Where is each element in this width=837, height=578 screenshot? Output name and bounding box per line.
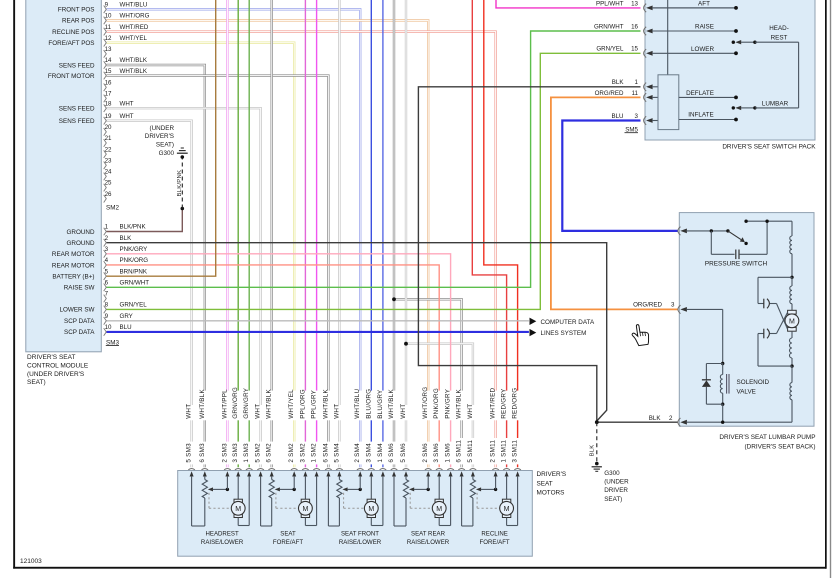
svg-text:GRN/YEL: GRN/YEL <box>596 46 624 53</box>
svg-text:WHT/BLU: WHT/BLU <box>354 389 361 419</box>
svg-text:BLK/PNK: BLK/PNK <box>120 224 147 231</box>
svg-text:SEAT): SEAT) <box>156 141 174 148</box>
svg-text:13: 13 <box>105 46 112 53</box>
svg-text:WHT/BLU: WHT/BLU <box>120 2 148 9</box>
svg-text:PPL/WHT: PPL/WHT <box>596 0 624 7</box>
connector SM3 pin 2 <box>104 239 107 247</box>
wire GRN/YEL net: module pin 8 to switch pack pin 15 <box>107 53 641 309</box>
wire Q2 to motor (cross link) <box>777 312 788 333</box>
wire WHT/BLK net: module pin 14 to motor 6 SM3 <box>107 65 205 467</box>
wire WHT net: off-page to motors 5 SM6 and 5 SM11 <box>405 0 407 467</box>
svg-text:3 SM3: 3 SM3 <box>232 443 239 463</box>
svg-text:20: 20 <box>105 124 112 131</box>
wire sensor leads group 1 <box>191 476 193 526</box>
svg-text:DRIVER'S SEAT SWITCH PACK: DRIVER'S SEAT SWITCH PACK <box>722 144 816 151</box>
label pin 5 SM2 <box>253 442 263 465</box>
label wire color WHT/BLU at 2 SM4 <box>353 391 363 421</box>
motor M group 2 <box>304 476 306 499</box>
svg-text:SEAT): SEAT) <box>604 496 622 503</box>
potentiometer position sensor group 3 <box>337 480 342 499</box>
label pin 5 SM6 <box>398 442 408 465</box>
mechanical link group 1 <box>208 493 210 508</box>
svg-text:9: 9 <box>105 2 109 9</box>
connector SM2 pin 21 <box>104 139 107 147</box>
ground G300 under driver seat (module side) <box>181 155 185 159</box>
svg-text:WHT/BLK: WHT/BLK <box>456 389 463 419</box>
junction on WHT sensor bus <box>404 342 408 346</box>
svg-text:WHT: WHT <box>400 404 407 419</box>
svg-text:WHT: WHT <box>467 404 474 419</box>
junction pump lower node <box>790 364 793 367</box>
label wire color WHT at 5 SM11 <box>465 405 475 420</box>
svg-text:BLU/GRY: BLU/GRY <box>377 389 384 419</box>
label pin 5 SM4 <box>332 442 342 465</box>
wire BLK dashed lead to G300 (bottom) <box>596 422 598 462</box>
junction BLK ground splice <box>595 420 599 424</box>
connector SM3 pin 6 <box>104 284 107 292</box>
svg-text:4: 4 <box>105 257 109 264</box>
svg-text:5 SM2: 5 SM2 <box>255 443 262 463</box>
svg-text:DRIVER'S: DRIVER'S <box>537 471 567 478</box>
wire BLK net: switch pack pin 1 ground path <box>418 87 640 421</box>
mouse cursor hand icon <box>631 323 650 346</box>
wire switch pack RAISE contact line <box>734 29 738 33</box>
svg-text:SCP DATA: SCP DATA <box>64 329 95 336</box>
svg-text:SM5: SM5 <box>625 126 638 133</box>
motor group 2: SEAT FORE/AFT <box>257 469 264 470</box>
connector SM2 pin 26 <box>104 195 107 203</box>
label wire color PNK/ORG at 3 SM6 <box>432 391 442 421</box>
svg-text:16: 16 <box>105 79 112 86</box>
wire BLU net: switch pack pin 3 to lumbar pump pin 1 <box>562 121 678 231</box>
svg-text:11: 11 <box>632 90 639 97</box>
ground G300 under driver seat (bottom) <box>595 462 599 466</box>
label wire color RED/GRY at 1 SM11 <box>499 391 509 421</box>
svg-text:5: 5 <box>105 268 109 275</box>
svg-text:M: M <box>504 506 510 513</box>
connector SM3 pin 5 <box>104 272 107 280</box>
svg-text:13: 13 <box>631 0 638 7</box>
svg-text:1: 1 <box>105 224 109 231</box>
wire BLK/PNK net: module pin 1 ground to G300 <box>107 209 183 232</box>
connector lumbar pump pin 1 (BLU) <box>678 227 681 235</box>
connector switch pack pin 13 (PPL/WHT) <box>644 4 647 12</box>
mechanical link group 2 <box>275 493 277 508</box>
svg-text:26: 26 <box>105 191 112 198</box>
switch body (lumbar switch block) <box>658 75 679 130</box>
label pin 3 SM2 <box>298 442 308 465</box>
connector switch pack pin 1 (BLK) <box>644 83 647 91</box>
potentiometer position sensor group 5 <box>470 480 475 499</box>
svg-text:1 SM3: 1 SM3 <box>243 443 250 463</box>
wire WHT net: module pin 19 to motor 5 SM3 <box>107 121 192 468</box>
svg-text:WHT: WHT <box>120 113 134 120</box>
label pin 6 SM3 <box>197 442 207 465</box>
pressure switch blade <box>728 231 741 240</box>
node computer data lines system arrows <box>530 318 537 325</box>
svg-text:FORE/AFT: FORE/AFT <box>273 539 303 546</box>
connector lumbar pump pin 2 (BLK) <box>678 418 681 426</box>
potentiometer position sensor group 2 <box>269 480 274 499</box>
label pin 1 SM4 <box>375 442 385 465</box>
label pin 6 SM11 <box>454 438 464 464</box>
wire BRN/PNK net: module pin 5 battery feed to off-page <box>107 0 216 276</box>
label pin 6 SM4 <box>321 442 331 465</box>
svg-text:G300: G300 <box>604 470 620 477</box>
svg-text:15: 15 <box>631 46 638 53</box>
svg-text:WHT: WHT <box>333 404 340 419</box>
pump motor supply branch (right) <box>791 221 793 236</box>
svg-text:8: 8 <box>105 302 109 309</box>
wire RED/GRY net: off-page to motor 1 SM11 <box>472 0 506 467</box>
solenoid valve branch <box>722 309 724 363</box>
wire GRN/WHT net: module pin 6 to switch pack pin 16 <box>107 31 641 287</box>
svg-text:5 SM3: 5 SM3 <box>186 443 193 463</box>
label wire color WHT/BLK at 6 SM4 <box>321 391 331 421</box>
mechanical link group 3 <box>343 493 345 508</box>
connector SM2 pin 13 <box>104 50 107 58</box>
svg-text:DRIVER'S SEAT: DRIVER'S SEAT <box>27 354 75 361</box>
label pin 3 SM11 <box>510 438 520 464</box>
label pin 6 SM2 <box>264 442 274 465</box>
svg-text:WHT/BLK: WHT/BLK <box>266 389 273 419</box>
label wire color PNK/GRY at 1 SM6 <box>443 391 453 421</box>
svg-text:AFT: AFT <box>698 1 710 8</box>
svg-text:REST: REST <box>771 34 788 41</box>
wire sensor leads group 5 <box>461 476 463 526</box>
svg-text:SCP DATA: SCP DATA <box>64 318 95 325</box>
svg-text:GRN/GRY: GRN/GRY <box>243 387 250 419</box>
wire WHT/BLK net: off-page to motor 6 SM2 <box>271 0 273 467</box>
label wire color WHT/RED at 2 SM11 <box>488 391 498 421</box>
connector switch pack pin 15 (GRN/YEL) <box>644 49 647 57</box>
transistor Q2 (pump lower driver) <box>758 365 792 367</box>
motor group 3: SEAT FRONT RAISE/LOWER <box>325 469 332 470</box>
svg-text:3 SM2: 3 SM2 <box>299 443 306 463</box>
svg-text:REAR POS: REAR POS <box>62 18 95 25</box>
potentiometer position sensor group 4 <box>403 480 408 499</box>
label wire color WHT/BLK at 6 SM11 <box>454 391 464 421</box>
svg-text:GRN/YEL: GRN/YEL <box>120 302 148 309</box>
svg-text:RED/GRY: RED/GRY <box>501 388 508 419</box>
svg-text:GRN/ORG: GRN/ORG <box>232 387 239 419</box>
svg-text:2 SM2: 2 SM2 <box>288 443 295 463</box>
connector SM2 pin 19 <box>104 117 107 125</box>
connector SM2 pin 18 <box>104 104 107 112</box>
svg-text:FRONT POS: FRONT POS <box>58 7 95 14</box>
svg-text:RAISE/LOWER: RAISE/LOWER <box>407 539 450 546</box>
svg-text:WHT/BLK: WHT/BLK <box>388 389 395 419</box>
svg-text:2 SM11: 2 SM11 <box>490 440 497 463</box>
label wire color PPL/ORG at 3 SM2 <box>298 391 308 421</box>
motor M group 4 <box>438 476 440 499</box>
motor group 4: SEAT REAR RAISE/LOWER <box>391 469 398 470</box>
svg-text:(UNDER DRIVER'S: (UNDER DRIVER'S <box>27 371 85 378</box>
wire sensor leads group 3 <box>327 476 329 526</box>
pressure switch sense capsule <box>710 231 712 254</box>
svg-text:PNK/ORG: PNK/ORG <box>120 257 149 264</box>
label pin 2 SM3 <box>220 442 230 465</box>
svg-text:VALVE: VALVE <box>737 388 756 395</box>
svg-text:M: M <box>436 506 442 513</box>
label pin 3 SM4 <box>364 442 374 465</box>
wire BLU/GRY net: off-page to motor 1 SM4 <box>382 0 384 467</box>
svg-text:FORE/AFT: FORE/AFT <box>480 539 510 546</box>
wire BLK segment to lumbar pump pin 2 <box>597 421 678 423</box>
wire GRN/GRY net: off-page to motor 1 SM3 <box>248 0 250 467</box>
svg-text:PPL/GRY: PPL/GRY <box>311 389 318 418</box>
svg-text:SENS FEED: SENS FEED <box>59 106 95 113</box>
wire BLU/ORG net: off-page to motor 3 SM4 <box>370 0 372 467</box>
label pin 5 SM3 <box>184 442 194 465</box>
wire Q1 to motor (cross link) <box>777 304 788 330</box>
wire WHT branch to 5 SM11 <box>406 344 473 468</box>
potentiometer wiper group 2 <box>275 487 280 491</box>
svg-text:GRN/WHT: GRN/WHT <box>594 23 624 30</box>
svg-text:PRESSURE SWITCH: PRESSURE SWITCH <box>705 261 768 268</box>
seat motors box <box>178 471 533 557</box>
wire PPL/GRY net: off-page to motor 1 SM2 <box>316 0 318 467</box>
diode D1 (solenoid clamp) <box>706 363 722 365</box>
svg-text:1 SM4: 1 SM4 <box>377 443 384 463</box>
svg-text:GRY: GRY <box>120 313 133 320</box>
connector SM3 pin 1 <box>104 228 107 236</box>
motor group 5: RECLINE FORE/AFT <box>458 469 465 470</box>
wire BLK net: module pin 2 ground to lumbar pump pin 2 and G300 <box>107 243 607 421</box>
frame: left black border <box>13 0 15 569</box>
pressure switch top link <box>746 220 792 222</box>
connector switch pack pin 11 (ORG/RED) <box>644 93 647 101</box>
label pin 2 SM4 <box>353 442 363 465</box>
solenoid valve coil <box>720 375 722 394</box>
svg-text:BLK: BLK <box>120 235 133 242</box>
svg-text:LOWER SW: LOWER SW <box>60 307 95 314</box>
potentiometer wiper group 3 <box>342 487 347 491</box>
svg-text:WHT: WHT <box>255 404 262 419</box>
svg-text:GROUND: GROUND <box>67 240 95 247</box>
svg-text:9: 9 <box>105 313 109 320</box>
svg-text:5 SM6: 5 SM6 <box>400 443 407 463</box>
label wire color BLU/GRY at 1 SM4 <box>375 391 385 421</box>
svg-text:15: 15 <box>105 68 112 75</box>
wire WHT/BLK branch to 6 SM11 <box>394 299 462 467</box>
svg-text:RECLINE POS: RECLINE POS <box>52 29 94 36</box>
svg-text:3 SM11: 3 SM11 <box>512 440 519 463</box>
label wire color WHT at 5 SM2 <box>253 405 263 420</box>
svg-text:1: 1 <box>635 79 639 86</box>
potentiometer wiper group 1 <box>208 487 213 491</box>
wire BLK/PNK dashed lead to G300 <box>181 157 183 208</box>
label pin 3 SM3 <box>231 442 241 465</box>
svg-text:BLK/PNK: BLK/PNK <box>177 170 183 197</box>
svg-text:BLU/ORG: BLU/ORG <box>365 389 372 419</box>
wire WHT net: off-page to motor 5 SM4 <box>338 0 340 467</box>
motor M group 5 <box>506 476 508 499</box>
svg-text:WHT/RED: WHT/RED <box>490 387 497 418</box>
connector switch pack pin 16 (GRN/WHT) <box>644 27 647 35</box>
svg-text:22: 22 <box>105 146 112 153</box>
svg-text:REAR MOTOR: REAR MOTOR <box>52 251 95 258</box>
wire PPL/WHT net: off-page to switch pack pin 13 <box>496 0 641 8</box>
svg-text:M: M <box>302 506 308 513</box>
svg-text:SEAT: SEAT <box>280 530 296 537</box>
label wire color WHT at 5 SM3 <box>184 405 194 420</box>
svg-text:1 SM6: 1 SM6 <box>445 443 452 463</box>
switch headrest rocker arm <box>732 41 735 44</box>
svg-text:RAISE/LOWER: RAISE/LOWER <box>201 539 244 546</box>
svg-text:ORG/RED: ORG/RED <box>633 302 662 309</box>
pressure switch contact nodes <box>711 230 728 232</box>
label wire color WHT/YEL at 2 SM2 <box>287 391 297 421</box>
frame: outer gray edge line <box>830 0 831 578</box>
svg-text:WHT/BLK: WHT/BLK <box>199 389 206 419</box>
svg-text:ORG/RED: ORG/RED <box>595 90 624 97</box>
svg-text:WHT/ORG: WHT/ORG <box>120 13 150 20</box>
svg-text:10: 10 <box>105 324 112 331</box>
connector SM2 pin 9 <box>104 6 107 14</box>
wire ORG/RED net: switch pack pin 11 to lumbar pump pin 3 <box>551 97 678 309</box>
svg-text:2 SM6: 2 SM6 <box>422 443 429 463</box>
svg-text:12: 12 <box>105 35 112 42</box>
svg-text:6 SM6: 6 SM6 <box>388 443 395 463</box>
connector SM3 pin 3 <box>104 250 107 258</box>
svg-text:WHT/ORG: WHT/ORG <box>422 387 429 419</box>
ECU driver seat control module box <box>26 0 102 352</box>
potentiometer position sensor group 1 <box>202 480 207 499</box>
svg-text:WHT/YEL: WHT/YEL <box>288 389 295 419</box>
svg-text:BLK: BLK <box>590 445 596 457</box>
svg-text:21: 21 <box>105 135 112 142</box>
mechanical link group 4 <box>409 493 411 508</box>
mechanical link group 5 <box>476 493 478 508</box>
svg-text:RAISE: RAISE <box>695 24 714 31</box>
label wire color WHT/PPL at 2 SM3 <box>220 391 230 421</box>
label wire color GRN/GRY at 1 SM3 <box>242 391 252 421</box>
connector SM2 pin 22 <box>104 150 107 158</box>
svg-text:18: 18 <box>105 100 112 107</box>
motor M group 3 <box>370 476 372 499</box>
svg-text:5 SM11: 5 SM11 <box>467 440 474 463</box>
label wire color WHT/ORG at 2 SM6 <box>421 391 431 421</box>
svg-text:INFLATE: INFLATE <box>688 112 713 119</box>
svg-text:SENS FEED: SENS FEED <box>59 118 95 125</box>
svg-text:SEAT): SEAT) <box>27 379 46 386</box>
svg-text:FRONT MOTOR: FRONT MOTOR <box>48 73 95 80</box>
connector SM3 pin 8 <box>104 306 107 314</box>
svg-text:HEAD-: HEAD- <box>769 25 789 32</box>
svg-text:(UNDER: (UNDER <box>604 479 629 486</box>
svg-text:HEADREST: HEADREST <box>206 530 239 537</box>
wire sensor leads group 2 <box>260 476 262 526</box>
wire WHT/RED net: module pin 11 to motor 2 SM11 <box>107 32 496 468</box>
label pin 1 SM3 <box>242 442 252 465</box>
connector SM2 pin 24 <box>104 173 107 181</box>
wire WHT/ORG net: module pin 10 to motor 2 SM6 <box>107 20 429 467</box>
svg-text:17: 17 <box>105 91 112 98</box>
svg-text:WHT/PPL: WHT/PPL <box>221 389 228 419</box>
wire WHT/BLK net: off-page to motors 6 SM6 and 6 SM11 <box>393 0 395 467</box>
svg-text:6 SM3: 6 SM3 <box>199 443 206 463</box>
svg-text:WHT: WHT <box>186 404 193 419</box>
lumbar pump box <box>679 213 814 427</box>
label pin 1 SM2 <box>309 442 319 465</box>
wire WHT/PPL net: off-page to motor 2 SM3 <box>226 0 228 467</box>
svg-text:5 SM4: 5 SM4 <box>333 443 340 463</box>
svg-text:6 SM2: 6 SM2 <box>266 443 273 463</box>
svg-text:6: 6 <box>105 280 109 287</box>
svg-text:121003: 121003 <box>20 558 42 565</box>
svg-text:7: 7 <box>105 291 109 298</box>
wire headrest-lumbar common feed <box>798 42 800 108</box>
svg-text:PNK/GRY: PNK/GRY <box>445 388 452 419</box>
svg-text:WHT: WHT <box>120 100 134 107</box>
switch lumbar rocker arm <box>732 106 735 109</box>
wire sensor leads group 4 <box>393 476 395 526</box>
svg-text:3: 3 <box>671 302 675 309</box>
svg-text:2: 2 <box>105 235 109 242</box>
svg-text:LINES SYSTEM: LINES SYSTEM <box>541 330 587 337</box>
svg-text:RECLINE: RECLINE <box>481 530 507 537</box>
svg-text:WHT/BLK: WHT/BLK <box>322 389 329 419</box>
inductor coil L2 (pump) <box>791 277 793 286</box>
connector SM2 pin 11 <box>104 28 107 36</box>
wire switch pack AFT contact line <box>652 7 736 9</box>
wire WHT/BLK net: module pin 15 to motor 6 SM4 <box>107 76 329 468</box>
wire switch pack LOWER contact line <box>734 51 738 55</box>
svg-text:16: 16 <box>631 23 638 30</box>
connector SM2 pin 16 <box>104 83 107 91</box>
svg-text:1 SM11: 1 SM11 <box>501 440 508 463</box>
svg-text:WHT/BLK: WHT/BLK <box>120 68 148 75</box>
frame: bottom black border <box>13 567 826 569</box>
svg-text:(DRIVER'S SEAT BACK): (DRIVER'S SEAT BACK) <box>745 443 816 450</box>
switch pack internal feed wire <box>667 0 669 75</box>
svg-text:24: 24 <box>105 169 112 176</box>
label wire color WHT at 5 SM6 <box>398 405 408 420</box>
svg-text:REAR MOTOR: REAR MOTOR <box>52 262 95 269</box>
wire PNK/GRY net: module pin 3 to motor 1 SM6 <box>107 254 451 467</box>
svg-text:M: M <box>789 318 795 325</box>
wire BLU net: module pin 10 SCP data to computer data lines <box>107 331 529 333</box>
label pin 6 SM6 <box>386 442 396 465</box>
connector SM2 pin 15 <box>104 72 107 80</box>
svg-text:SOLENOID: SOLENOID <box>737 379 770 386</box>
inductor coil L3 (pump) <box>791 331 793 338</box>
svg-text:SEAT: SEAT <box>537 480 553 487</box>
svg-text:3 SM4: 3 SM4 <box>365 443 372 463</box>
svg-text:25: 25 <box>105 180 112 187</box>
svg-text:11: 11 <box>105 24 112 31</box>
svg-text:GROUND: GROUND <box>67 229 95 236</box>
node splice on BLK/PNK at SM2 row <box>181 207 185 211</box>
potentiometer wiper group 4 <box>409 487 414 491</box>
motor M group 1 <box>237 476 239 499</box>
svg-text:WHT/RED: WHT/RED <box>120 24 149 31</box>
connector SM2 pin 17 <box>104 95 107 103</box>
svg-text:14: 14 <box>105 57 112 64</box>
label pin 2 SM11 <box>488 438 498 464</box>
svg-text:BATTERY (B+): BATTERY (B+) <box>52 273 94 280</box>
svg-text:RED/ORG: RED/ORG <box>512 388 519 419</box>
svg-text:BLU: BLU <box>611 113 623 120</box>
junction on WHT/BLK sensor bus <box>392 297 396 301</box>
connector SM3 pin 9 <box>104 317 107 325</box>
wire PNK/ORG net: module pin 4 to motor 3 SM6 <box>107 265 440 467</box>
wire WHT/YEL net: module pin 12 to motor 2 SM2 <box>107 43 295 467</box>
svg-text:(UNDER: (UNDER <box>150 125 175 132</box>
label pin 2 SM6 <box>421 442 431 465</box>
svg-text:BLU: BLU <box>120 324 132 331</box>
